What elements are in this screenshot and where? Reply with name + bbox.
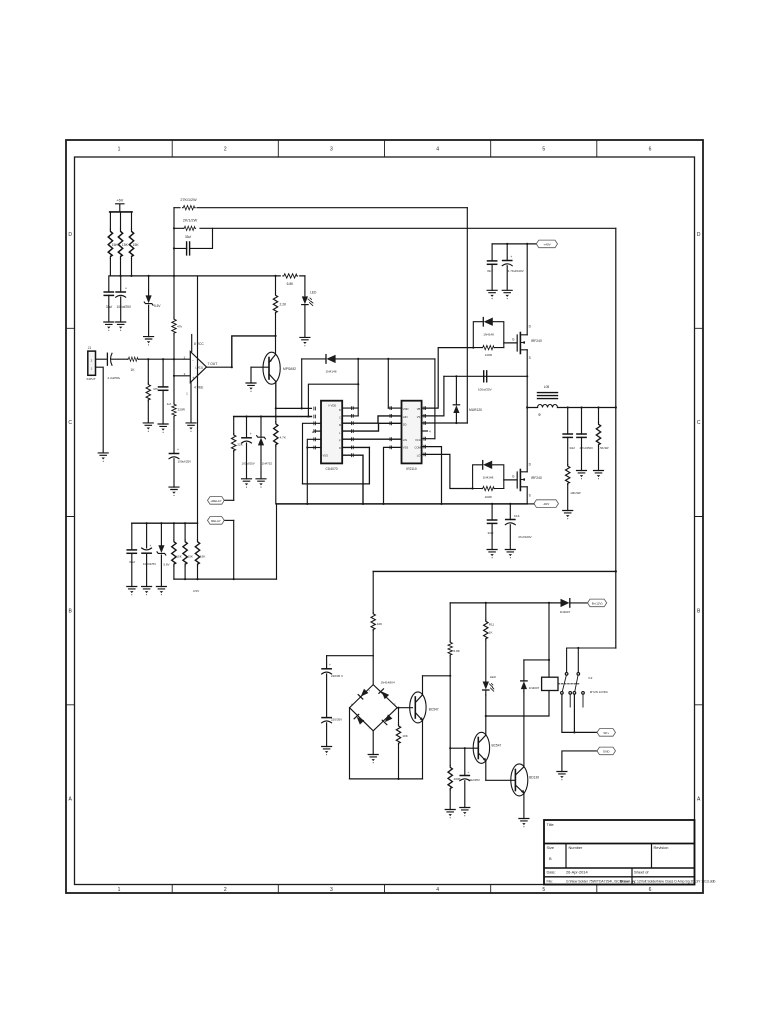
resistor 1K input: [128, 357, 139, 361]
svg-text:C: C: [68, 420, 72, 426]
svg-text:V VDD: V VDD: [328, 404, 336, 408]
svg-text:IR2110: IR2110: [406, 467, 417, 471]
svg-text:5.6V: 5.6V: [163, 563, 169, 567]
svg-text:1: 1: [118, 887, 121, 893]
capacitor 33uf ref: [131, 523, 133, 550]
resistor 100K: [448, 766, 452, 790]
transistor Q6 BC547: [473, 732, 489, 763]
zone row labels left: [68, 232, 72, 803]
svg-text:2.2K: 2.2K: [280, 303, 288, 307]
resistor 6.8K on rail: [283, 274, 298, 278]
svg-text:26-Apr-2014: 26-Apr-2014: [566, 870, 588, 875]
resistor 4.7K: [275, 408, 277, 422]
svg-text:GND: GND: [603, 749, 611, 753]
diode 1N4007 supply: [569, 599, 571, 608]
wire riser to IR2110 VDD: [387, 359, 389, 408]
svg-text:VCC: VCC: [415, 438, 421, 442]
wire op-amp VCC stub: [191, 335, 193, 352]
svg-text:220/35V: 220/35V: [331, 717, 342, 721]
svg-text:15K: 15K: [200, 554, 205, 558]
svg-text:Date:: Date:: [547, 870, 556, 875]
net flag GND: [597, 747, 616, 755]
svg-text:5: 5: [542, 887, 545, 893]
wire CD4070 to IR2110 SD: [342, 423, 401, 431]
resistor 100R top gate: [482, 345, 495, 349]
wire riser 4.5V to -40V bus: [276, 504, 278, 579]
svg-text:10uf/35V: 10uf/35V: [468, 778, 480, 782]
svg-text:MUR120: MUR120: [469, 408, 482, 412]
wire feedback loop: [232, 336, 276, 367]
svg-text:15K: 15K: [176, 554, 181, 558]
svg-text:47uf/100V: 47uf/100V: [518, 535, 532, 539]
resistor 15K (a): [109, 212, 111, 276]
wire CD4070 to IR2110 LIN: [342, 438, 401, 440]
svg-text:+RELAY: +RELAY: [210, 499, 221, 503]
svg-text:10K: 10K: [377, 622, 383, 626]
svg-text:File:: File:: [547, 879, 553, 883]
svg-text:LED: LED: [490, 675, 497, 679]
wire collector to 6.8K: [423, 675, 451, 677]
net flag RELAY: [224, 519, 233, 521]
svg-text:SD: SD: [403, 422, 407, 426]
wire right bus to contact feed corner: [615, 647, 617, 649]
svg-text:100R: 100R: [485, 353, 493, 357]
resistor 15K ref (a): [173, 523, 175, 540]
svg-text:1.5K/3W: 1.5K/3W: [598, 446, 609, 450]
svg-text:D: D: [68, 232, 72, 238]
zener diode 5.6V ref: [160, 523, 162, 545]
zener diode 5.6V: [148, 276, 150, 296]
svg-text:12Volt SolderNew Class D Amp S: 12Volt SolderNew Class D Amp Sg 2013Y 10…: [637, 879, 715, 883]
inductor L05 output: [527, 407, 616, 409]
svg-text:1N4148: 1N4148: [483, 475, 494, 479]
zone tick marks bottom: [172, 885, 597, 894]
net flag +RELAY: [224, 499, 233, 501]
svg-text:Revision: Revision: [654, 845, 669, 850]
capacitor 33uf +40V: [491, 244, 493, 261]
op-amp U1 LM311: [190, 352, 206, 383]
svg-text:3: 3: [330, 147, 333, 153]
svg-text:6: 6: [649, 887, 652, 893]
svg-text:8 VCC: 8 VCC: [194, 342, 204, 346]
resistor 100R bottom gate: [482, 486, 495, 490]
wire bottom return: [350, 778, 423, 780]
svg-text:VS: VS: [417, 415, 421, 419]
wire -40V bus: [277, 503, 528, 505]
svg-text:+: +: [329, 663, 331, 667]
connector J1 INPUT: [88, 351, 96, 375]
resistor 10K base: [398, 708, 400, 725]
wire IR2110 VDD entry: [388, 407, 401, 409]
svg-text:+: +: [510, 255, 512, 259]
svg-text:BD139: BD139: [529, 776, 539, 780]
svg-text:-40V: -40V: [543, 502, 550, 506]
svg-text:Drawn by:: Drawn by:: [620, 879, 636, 883]
svg-text:2: 2: [224, 147, 227, 153]
svg-text:1K: 1K: [489, 631, 493, 635]
wire RELAY flag drop: [233, 520, 235, 579]
svg-text:MPSA92: MPSA92: [283, 367, 296, 371]
svg-text:R11: R11: [489, 623, 495, 627]
svg-text:D: D: [697, 232, 701, 238]
IR2110 pin stub 4: [422, 430, 428, 432]
svg-text:B+(12V): B+(12V): [592, 601, 603, 605]
diode MUR120: [455, 376, 457, 405]
CD4070 pin stub 2: [315, 430, 321, 432]
net flag B+(12V): [588, 599, 607, 607]
resistor 15K (b): [120, 212, 122, 276]
wire relay coil bottom: [486, 715, 549, 717]
resistor 1.5K/3W output: [598, 408, 600, 423]
svg-text:COM: COM: [415, 446, 422, 450]
svg-text:1: 1: [118, 147, 121, 153]
top gate loop diode 1N4148: [473, 322, 504, 348]
svg-text:100R: 100R: [485, 495, 493, 499]
svg-text:S: S: [529, 494, 531, 498]
svg-text:VSS: VSS: [403, 446, 409, 450]
resistor 22K to relay flag: [233, 417, 235, 434]
svg-text:6.8K: 6.8K: [454, 649, 461, 653]
svg-text:3: 3: [330, 887, 333, 893]
relay actuator dashed link: [558, 683, 580, 685]
net flag -40V: [534, 500, 559, 508]
sheet outer border: [66, 140, 703, 893]
svg-text:33uf: 33uf: [106, 305, 112, 309]
wire CD4070 VSS drop: [342, 455, 363, 504]
capacitor 33uf parallel to 2K: [174, 228, 213, 248]
wire IR2110 VSS drop: [384, 447, 402, 504]
wire riser to CD4070 pins A,B: [357, 359, 359, 416]
svg-text:7 OUT: 7 OUT: [208, 362, 218, 366]
capacitor 220/35V (b): [322, 718, 332, 723]
svg-text:4.5V: 4.5V: [193, 589, 200, 593]
capacitor 33uf -40V: [491, 504, 493, 520]
zone tick marks right: [695, 328, 704, 705]
resistor 220R: [173, 359, 175, 403]
svg-text:+: +: [177, 448, 179, 452]
svg-text:100UF/5V: 100UF/5V: [143, 562, 156, 566]
zone labels bottom: [118, 887, 652, 893]
svg-text:HIN: HIN: [403, 415, 408, 419]
wire IR2110 HO bus: [422, 422, 468, 424]
svg-text:Size: Size: [547, 845, 555, 850]
transistor Q3 MOSFET IRF240 top: [504, 335, 517, 351]
svg-text:R: R: [339, 446, 341, 450]
wire CD4070 pin F: [307, 447, 321, 449]
zener diode 1N4752: [260, 417, 262, 438]
svg-text:LO: LO: [417, 453, 421, 457]
diode D2 1N4148: [302, 358, 326, 360]
wire B+ rail: [450, 602, 561, 604]
svg-text:+6V: +6V: [116, 199, 123, 203]
svg-text:4: 4: [436, 147, 439, 153]
wire op-amp pin3: [174, 375, 190, 377]
zone tick marks top: [172, 140, 597, 157]
LED indicator top: [304, 276, 306, 296]
resistor 27K/1/2W: [174, 207, 467, 209]
wire CD4070 to IR2110 HIN: [342, 416, 401, 423]
relay contact poles: [565, 673, 568, 676]
wire IR2110 LO to bottom gate: [422, 454, 473, 488]
rail 4.5V reference top: [132, 522, 198, 524]
svg-text:33uf: 33uf: [129, 560, 135, 564]
wire right 12V bus riser: [615, 228, 617, 648]
capacitor 1uf signal: [162, 359, 164, 387]
wire 6.8K node down: [449, 676, 451, 766]
zone tick marks left: [66, 328, 75, 705]
resistor 6.8K: [449, 603, 451, 641]
wire GND net: [562, 751, 597, 772]
svg-text:Number: Number: [569, 845, 584, 850]
svg-text:22K: 22K: [237, 443, 243, 447]
capacitor 220/35V (a): [322, 669, 332, 674]
svg-text:10K: 10K: [402, 734, 408, 738]
svg-text:IRF240: IRF240: [531, 339, 542, 343]
capacitor 10uf/35V: [464, 748, 466, 775]
svg-text:C14: C14: [514, 514, 520, 518]
wire 12V feed lower section: [373, 570, 616, 572]
svg-text:B: B: [549, 856, 552, 861]
title block text: [547, 822, 716, 883]
svg-text:K2: K2: [589, 676, 593, 680]
svg-text:LM311: LM311: [195, 365, 203, 369]
svg-text:6.8K: 6.8K: [287, 282, 295, 286]
wire IR2110 VS to bootstrap: [422, 376, 444, 416]
wire vertical feed x174: [173, 208, 175, 276]
resistor 47k upper divider: [173, 276, 175, 318]
svg-text:1N4148: 1N4148: [326, 370, 337, 374]
svg-text:L05: L05: [544, 385, 550, 389]
svg-text:33uf: 33uf: [488, 531, 494, 535]
svg-text:2: 2: [224, 887, 227, 893]
svg-text:Sheet of: Sheet of: [634, 870, 649, 875]
wire riser to diode net: [301, 359, 303, 409]
svg-text:5: 5: [542, 147, 545, 153]
wire IR2110 VB to top gate: [422, 348, 474, 409]
svg-text:10K/3W: 10K/3W: [570, 491, 581, 495]
svg-text:100uf/25V: 100uf/25V: [117, 305, 132, 309]
wire CD4070 right pin2 riser: [342, 415, 358, 417]
svg-text:100uf/25V: 100uf/25V: [478, 388, 492, 392]
svg-text:RELAY: RELAY: [211, 519, 221, 523]
bottom gate loop diode 1N4148: [473, 465, 504, 489]
wire emitter feed: [275, 336, 277, 353]
wire input bus to CD4070 pin B: [234, 416, 312, 418]
svg-text:2.2uf/50v: 2.2uf/50v: [108, 376, 121, 380]
zone labels top: [118, 147, 652, 153]
relay K2 coil: [548, 603, 550, 716]
wire IR2110 VCC entry: [422, 438, 435, 440]
capacitor 100uf/25V bootstrap: [484, 371, 487, 382]
svg-text:+: +: [250, 432, 252, 436]
wire 27K riser to HO bus: [466, 208, 468, 423]
wire riser to IR2110 VCC: [434, 359, 436, 439]
pin hash marks CD4070 right: [314, 407, 426, 457]
wire bridge right to base: [397, 707, 412, 709]
resistor 2K/1/2W: [174, 227, 616, 229]
diode 1N4007 flyback: [521, 680, 527, 682]
svg-text:100uf/25V: 100uf/25V: [178, 460, 192, 464]
wire IR2110 COM drop: [422, 447, 442, 504]
wire +40V net: [492, 243, 536, 245]
resistor 10K/3W: [566, 465, 570, 485]
wire J1 pin2: [96, 358, 107, 360]
wire bridge left leg: [349, 708, 351, 779]
svg-text:Φ: Φ: [538, 413, 541, 417]
svg-text:1N4752: 1N4752: [262, 461, 273, 465]
wire delay node: [327, 655, 374, 657]
svg-text:6: 6: [649, 147, 652, 153]
svg-text:-: -: [369, 726, 370, 730]
svg-text:15K: 15K: [122, 243, 129, 247]
wire CD4070 right pin1 riser: [342, 407, 358, 409]
svg-text:LIN: LIN: [403, 438, 407, 442]
svg-text:B: B: [339, 408, 341, 412]
capacitor 33uf output: [567, 408, 569, 435]
svg-text:1uf: 1uf: [167, 402, 171, 406]
transistor Q4 MOSFET IRF240 bottom: [504, 472, 517, 488]
resistor 15K (c): [131, 212, 133, 276]
wire long feed from +6V rail: [197, 276, 199, 523]
wire bootstrap cap net: [444, 375, 527, 377]
wire flyback top: [524, 659, 549, 661]
svg-text:+: +: [150, 544, 152, 548]
svg-text:100uf/25V: 100uf/25V: [242, 461, 255, 465]
resistor 10K soft start: [372, 571, 374, 612]
wire main +6V rail: [110, 275, 305, 277]
wire emitter Q6 to base Q7: [486, 779, 516, 781]
wire CD4070 pin E: [307, 439, 321, 504]
capacitor 100uf/25V rail bypass: [120, 276, 122, 292]
capacitor 2.2uf/50v input: [106, 353, 108, 365]
svg-text:220/35 V: 220/35 V: [331, 674, 343, 678]
svg-text:33uf: 33uf: [185, 235, 191, 239]
svg-text:M: M: [339, 423, 341, 427]
capacitor 4.7Kuf/100V: [506, 244, 508, 261]
svg-text:4: 4: [436, 887, 439, 893]
diode bridge 1N4148X4: [372, 656, 374, 685]
svg-text:4.7Kuf/100V: 4.7Kuf/100V: [508, 269, 524, 273]
svg-text:15K: 15K: [112, 243, 119, 247]
LED indicator relay: [483, 682, 489, 690]
svg-text:2K/1/2W: 2K/1/2W: [183, 219, 198, 223]
transistor Q5 BC547: [410, 692, 426, 723]
svg-text:SP+: SP+: [603, 731, 609, 735]
resistor 47k to ground: [147, 359, 149, 383]
svg-text:4.7K: 4.7K: [280, 435, 287, 439]
capacitor 100uf/25V on input bus: [246, 417, 248, 438]
svg-text:1N4007: 1N4007: [529, 686, 540, 690]
svg-text:IRF240: IRF240: [531, 476, 542, 480]
svg-text:4.7uf/250V: 4.7uf/250V: [580, 446, 594, 450]
svg-text:VSS: VSS: [323, 454, 329, 458]
svg-text:+: +: [125, 287, 127, 291]
transistor Q1 MPSA92: [263, 352, 280, 384]
net flag +40V: [536, 240, 557, 248]
svg-text:INPUT: INPUT: [87, 377, 96, 381]
sheet inner border: [75, 157, 695, 885]
svg-text:BC547: BC547: [492, 743, 502, 747]
svg-text:BC547: BC547: [429, 708, 439, 712]
title block frame: [544, 820, 695, 885]
svg-text:VDD: VDD: [403, 407, 409, 411]
transistor Q7 BD139: [511, 764, 528, 796]
svg-text:Title: Title: [547, 822, 554, 827]
wire xor feedback: [308, 384, 358, 416]
wire base Q6: [450, 747, 478, 749]
wire collector node: [276, 407, 312, 409]
svg-text:33uf: 33uf: [569, 446, 575, 450]
svg-text:J1: J1: [88, 346, 92, 350]
svg-text:1N4007: 1N4007: [560, 610, 571, 614]
svg-text:C: C: [339, 416, 341, 420]
svg-text:G:\New Solder 75W\TDA7294\..\S: G:\New Solder 75W\TDA7294\..\SCH\..: [566, 879, 625, 883]
svg-text:VB: VB: [417, 407, 421, 411]
svg-text:220R: 220R: [178, 408, 186, 412]
svg-text:+40V: +40V: [543, 242, 551, 246]
svg-text:CD4070: CD4070: [326, 467, 338, 471]
svg-text:S: S: [529, 356, 531, 360]
svg-text:15K: 15K: [188, 554, 193, 558]
resistor 15K ref (c) inline: [197, 523, 199, 540]
capacitor 4.7uf/250V output: [581, 408, 583, 435]
svg-text:27K/1/2W: 27K/1/2W: [180, 198, 197, 202]
svg-text:C: C: [697, 420, 701, 426]
wire U-loop bottom: [303, 447, 370, 484]
wire top bar of 15K bank: [110, 211, 132, 213]
capacitor 100uf/25V on 220R leg: [169, 454, 179, 459]
wire 4.5V node: [174, 578, 277, 580]
resistor 2.2K: [275, 276, 277, 293]
svg-text:33uf: 33uf: [487, 269, 493, 273]
capacitor 100uf/5V ref: [146, 523, 148, 548]
wire op-amp VEE to ground: [190, 383, 192, 423]
relay contact feed: [567, 648, 616, 673]
svg-text:LED: LED: [310, 291, 317, 295]
svg-text:4 VEE: 4 VEE: [194, 386, 204, 390]
svg-text:47k: 47k: [153, 387, 158, 391]
resistor 15K ref (b): [184, 523, 186, 540]
svg-text:MY2N 12VDC: MY2N 12VDC: [590, 690, 608, 694]
resistor R11 1K: [485, 603, 487, 620]
ground on output node: [250, 367, 252, 383]
svg-text:47k: 47k: [177, 325, 182, 329]
svg-text:5.6V: 5.6V: [154, 304, 161, 308]
svg-text:+: +: [468, 770, 470, 774]
wire CD4070 pin to U-loop: [342, 446, 369, 448]
svg-text:1N4148: 1N4148: [483, 332, 494, 336]
wire SP+ net: [562, 694, 597, 732]
wire CD4070 pin C loop: [303, 423, 322, 484]
svg-text:1N4148X4: 1N4148X4: [381, 681, 396, 685]
capacitor 33uf rail bypass: [108, 276, 110, 292]
capacitor C14 47uf/100V: [509, 504, 511, 520]
svg-text:15K: 15K: [133, 243, 140, 247]
IC U2 CD4070: [321, 401, 342, 464]
net flag SP+: [597, 729, 616, 737]
IC U3 IR2110: [402, 401, 422, 464]
wire op-amp output: [207, 366, 270, 368]
wire J1 pin1 to ground: [96, 367, 104, 453]
ground bridge bottom: [372, 731, 374, 755]
zone row labels right: [697, 232, 701, 803]
